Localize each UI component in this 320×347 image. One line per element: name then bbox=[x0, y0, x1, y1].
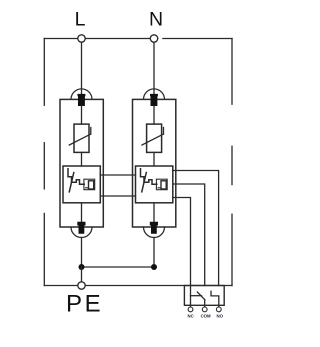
svg-text:L: L bbox=[75, 8, 86, 30]
wire plug to varistor RV2 bbox=[153, 106, 155, 124]
varistor RV2 body bbox=[147, 124, 162, 152]
enclosure right edge lower segment bbox=[231, 214, 233, 285]
wire module 2 to PE bus bbox=[153, 238, 155, 268]
wire PE bus down to PE terminal bbox=[81, 267, 83, 282]
module 2 (N varistor cartridge) body bbox=[133, 99, 176, 227]
module 1 bottom plug socket arc bbox=[71, 227, 92, 238]
svg-text:N: N bbox=[149, 8, 163, 30]
monitor 2 indicator outer rect bbox=[156, 179, 167, 190]
module 1 bottom plug contact bbox=[77, 222, 85, 234]
monitor 2 indicator flag rect bbox=[161, 181, 166, 189]
wire L down to module 1 bbox=[81, 42, 83, 95]
contact changeover blade bbox=[197, 292, 204, 300]
terminal circle L bbox=[78, 35, 85, 42]
enclosure left edge upper segment bbox=[43, 39, 45, 106]
monitor 2 symbol strokes bbox=[141, 169, 157, 185]
module 2 top plug contact bbox=[150, 94, 158, 106]
module 2 top plug socket arc bbox=[144, 89, 165, 99]
wire monitor 2 output 2 to COM side bbox=[173, 184, 205, 286]
wire module 1 to PE bus bbox=[81, 238, 83, 268]
module 2 bottom plug contact bbox=[150, 222, 158, 234]
PE bus wire bbox=[82, 266, 155, 268]
module 1 top plug contact bbox=[78, 94, 86, 106]
monitor 1 indicator flag rect bbox=[89, 181, 94, 189]
monitor 1 indicator outer rect bbox=[84, 179, 95, 190]
monitor 1 switch blade bbox=[69, 173, 74, 192]
enclosure right edge upper segment bbox=[231, 39, 233, 105]
module 1 (L varistor cartridge) body bbox=[60, 99, 103, 227]
wire monitor 2 output 3 to NC terminal bbox=[173, 198, 191, 308]
remote signalling contact box bbox=[184, 286, 224, 306]
varistor RV2 diagonal bbox=[142, 128, 164, 146]
svg-text:NO: NO bbox=[216, 313, 223, 318]
contact NC fixed lead bbox=[191, 295, 202, 297]
wire monitor box to bottom plug bbox=[81, 203, 83, 222]
svg-text:PE: PE bbox=[66, 290, 103, 317]
enclosure left edge middle segment bbox=[43, 143, 45, 189]
contact NO fixed lead bbox=[211, 291, 219, 307]
svg-text:COM: COM bbox=[201, 313, 211, 318]
enclosure left edge lower segment bbox=[43, 213, 45, 285]
wire monitor box 2 to bottom plug bbox=[153, 203, 155, 222]
monitor 2 switch blade bbox=[142, 173, 147, 192]
monitor 2 indicator flag foot bbox=[158, 187, 161, 189]
wire monitor 1 output upper to monitor 2 bbox=[100, 174, 135, 176]
monitor 1 symbol strokes bbox=[68, 169, 84, 185]
junction dot module 1 / PE bbox=[79, 264, 85, 270]
wire varistor to monitor box 2 bbox=[153, 152, 155, 166]
module 1 top plug socket arc bbox=[71, 89, 92, 99]
module 2 bottom plug socket arc bbox=[144, 227, 165, 238]
enclosure right edge middle segment bbox=[231, 146, 233, 184]
terminal circle PE bbox=[78, 282, 85, 289]
wire monitor 2 output 1 to NO side bbox=[173, 171, 219, 286]
wire plug to varistor RV1 bbox=[81, 106, 83, 124]
wire monitor 1 output lower to monitor 2 bbox=[100, 195, 135, 197]
wire varistor to monitor box bbox=[81, 152, 83, 166]
varistor RV1 diagonal bbox=[69, 128, 91, 146]
terminal circle COM bbox=[202, 307, 207, 312]
module 1 thermal-disconnect monitor box bbox=[63, 166, 100, 203]
svg-text:NC: NC bbox=[187, 313, 193, 318]
junction dot module 2 / PE bbox=[151, 264, 157, 270]
enclosure bottom edge bbox=[44, 285, 232, 287]
terminal circle N bbox=[150, 35, 157, 42]
wire N down to module 2 bbox=[153, 42, 155, 95]
monitor 1 indicator flag foot bbox=[86, 187, 89, 189]
terminal circle NO bbox=[216, 307, 221, 312]
contact COM lead bbox=[204, 300, 206, 307]
enclosure top edge bbox=[44, 38, 232, 40]
module 2 thermal-disconnect monitor box bbox=[136, 166, 173, 203]
varistor RV1 body bbox=[74, 124, 89, 152]
terminal circle NC bbox=[188, 307, 193, 312]
